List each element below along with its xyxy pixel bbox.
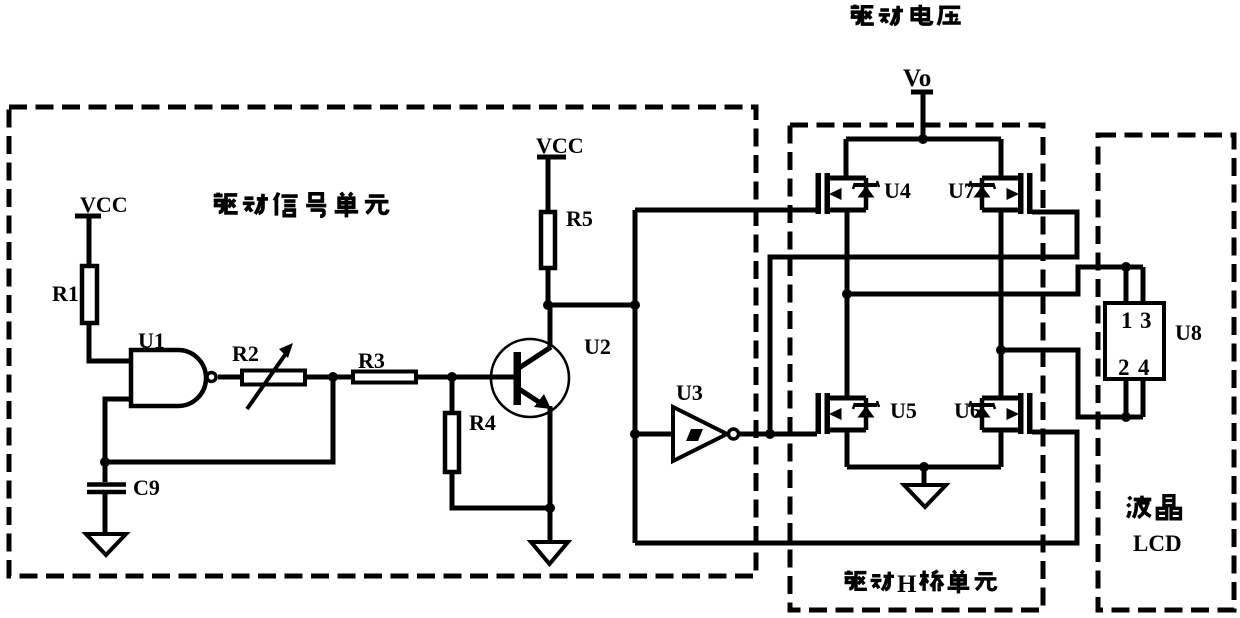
svg-text:U1: U1 (138, 328, 165, 353)
mosfet U4 (816, 173, 880, 214)
wire U6 source down (999, 430, 1004, 467)
junction left midpoint node (842, 289, 852, 299)
junction R5-collector node (543, 300, 553, 310)
chip U8 (1105, 303, 1164, 379)
wire U2 collector up (548, 305, 553, 347)
mosfet U5 (816, 393, 880, 434)
junction U8 pin 1 wire (1121, 262, 1131, 272)
svg-text:U3: U3 (676, 380, 703, 405)
mosfet U7 (969, 173, 1033, 214)
svg-text:VCC: VCC (80, 192, 128, 217)
wire U4 drain up (844, 139, 849, 178)
label: 驱动H桥单元 (drive H-bridge unit) (845, 571, 997, 594)
svg-text:U5: U5 (890, 398, 917, 423)
ground under U2 (531, 542, 568, 564)
ground H-bridge (904, 485, 946, 507)
H-bridge source rail (847, 465, 1001, 470)
wire C9 top stem (103, 462, 108, 482)
junction at C9 node (100, 457, 110, 467)
wire U1 output to R2 (218, 375, 242, 380)
svg-text:U4: U4 (884, 178, 911, 203)
junction U2 base / R4 node (447, 372, 457, 382)
svg-text:LCD: LCD (1133, 531, 1182, 556)
label: 驱动信号单元 (drive signal unit) (214, 193, 389, 218)
wire U8 pin4 (1141, 379, 1146, 417)
resistor R5 (541, 212, 555, 268)
VCC bar right (537, 155, 566, 160)
wire R3 to U2 base (416, 375, 514, 380)
capacitor C9 (87, 482, 126, 487)
svg-text:R4: R4 (469, 410, 496, 435)
junction U3 output branch (765, 429, 775, 439)
wire bottom bus to U6 gate (635, 432, 1077, 543)
wire C9 bottom stem (103, 493, 108, 534)
resistor R4 (445, 413, 459, 472)
NAND gate U1 (131, 350, 206, 406)
wire bus to U3 input (635, 432, 673, 437)
svg-text:H: H (897, 571, 917, 598)
junction collector node at bus (630, 300, 640, 310)
wire base junction to R4 (450, 377, 455, 413)
wire U8 pin3 (1141, 267, 1146, 303)
wire U8 pin2 (1124, 379, 1129, 417)
svg-text:R2: R2 (232, 341, 259, 366)
svg-text:R3: R3 (358, 348, 385, 373)
wire R1 to U1 input1 (89, 323, 131, 361)
svg-text:R5: R5 (566, 206, 593, 231)
wire right midpoint to U8 pins 2,4 (1001, 350, 1143, 417)
junction U8 pin 2 wire (1121, 412, 1131, 422)
wire U3 output to U5 gate (739, 432, 817, 437)
H-bridge top rail (846, 137, 1001, 142)
svg-text:VCC: VCC (536, 133, 584, 158)
labels (latin) (52, 65, 1202, 556)
resistor R3 (353, 372, 416, 383)
label: 驱动电压 (drive voltage) (851, 5, 961, 26)
svg-text:U6: U6 (954, 398, 981, 423)
wire Vo down (921, 92, 926, 139)
svg-text:3: 3 (1140, 308, 1152, 333)
wire U7 drain up (999, 139, 1004, 178)
dashed box: LCD unit (1098, 135, 1234, 610)
svg-text:1: 1 (1121, 308, 1133, 333)
resistor R2 (variable) (242, 371, 305, 385)
svg-text:2: 2 (1118, 355, 1130, 380)
wire feedback node to R2R3 junction (105, 377, 333, 462)
inverter U3 (673, 407, 727, 461)
wire ground stem H-bridge (922, 467, 927, 485)
mosfet U6 (969, 393, 1033, 434)
junction ground rail (919, 462, 929, 472)
wire VCC2 to R5 (546, 157, 551, 212)
VCC bar left (75, 214, 101, 219)
svg-text:C9: C9 (133, 475, 160, 500)
wire left midpoint to U8 pins 1,3 (847, 267, 1143, 294)
junction right midpoint node (996, 345, 1006, 355)
label: 液晶 (liquid crystal) (1128, 496, 1181, 519)
wire U8 pin1 (1124, 267, 1129, 303)
wire bus to U4 gate (635, 208, 817, 213)
bus vertical (633, 210, 638, 543)
svg-text:Vo: Vo (903, 65, 931, 92)
wire U1 input2 (105, 399, 131, 462)
dashed box: drive signal unit (9, 107, 756, 576)
wire VCC to R1 (87, 216, 92, 266)
right midpoint vertical U7 source to U6 drain (999, 210, 1004, 398)
svg-text:U7: U7 (948, 178, 975, 203)
wire R5 to collector node (546, 268, 551, 305)
wire U5 source down (845, 430, 850, 467)
resistor R1 (82, 266, 97, 323)
junction R4-emitter node (545, 503, 555, 513)
junction bus to U3 input (630, 429, 640, 439)
wire R4 to emitter rail (452, 472, 550, 508)
wire U2 emitter down to ground (548, 406, 553, 542)
svg-text:U2: U2 (584, 334, 611, 359)
svg-text:U8: U8 (1175, 320, 1202, 345)
wire U3 branch up to U7 gate (770, 212, 1077, 434)
Vo bar (911, 90, 933, 95)
transistor U2 (491, 339, 569, 417)
svg-text:4: 4 (1138, 355, 1150, 380)
ground under C9 (86, 534, 126, 555)
wire R2 to R3 (305, 375, 353, 380)
junction Vo at top rail (918, 134, 928, 144)
svg-text:R1: R1 (52, 281, 79, 306)
wire collector node to bus (548, 303, 635, 308)
left midpoint vertical U4 source to U5 drain (845, 210, 850, 398)
dashed box: drive H-bridge unit (790, 125, 1043, 610)
junction R2-R3 node (328, 372, 338, 382)
